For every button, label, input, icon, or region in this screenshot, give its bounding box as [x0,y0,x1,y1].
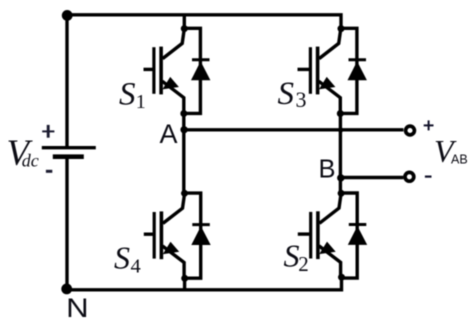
terminal minus [405,172,414,181]
svg-text:4: 4 [131,255,141,277]
junction A-line crossing [338,127,343,132]
IGBT S4 [144,193,185,278]
svg-text:S: S [278,76,295,112]
wire left leg top tap [183,15,186,29]
battery Vdc negative plate [53,154,84,159]
junction node N corner [61,284,72,295]
svg-text:A: A [160,119,178,149]
svg-text:2: 2 [298,252,309,276]
junction S1 collector [181,25,188,32]
junction S2 emitter [338,274,345,281]
diode D3 [341,28,367,113]
junction S4 emitter [181,275,188,282]
junction S3 emitter [337,110,344,117]
wire left leg bottom [183,278,186,290]
IGBT S3 [298,29,341,114]
svg-text:1: 1 [136,91,146,113]
svg-text:AB: AB [451,153,468,167]
wire left bus lower [65,158,68,289]
svg-text:3: 3 [296,87,307,112]
wire right leg mid (through crossing and node B) [339,114,342,194]
node B [337,174,344,181]
output minus sign [425,176,432,178]
junction S4 collector [181,190,188,197]
junction top-left corner [62,10,73,21]
junction S2 collector [338,190,345,197]
wire left bus upper [65,15,68,147]
svg-text:dc: dc [22,150,39,170]
wire left leg mid (through node A) [182,114,185,194]
battery plus sign [42,125,54,138]
node A [180,126,187,133]
wire bottom rail [67,277,342,290]
wire node B to minus terminal [341,176,404,179]
junction S3 collector [338,25,345,32]
svg-text:S: S [284,238,300,274]
battery minus sign [46,170,52,173]
svg-text:B: B [319,156,336,184]
diode D1 [184,28,210,113]
IGBT S2 [298,193,341,278]
junction S1 emitter [180,110,187,117]
svg-text:S: S [114,239,130,275]
terminal plus [406,126,415,135]
battery Vdc positive plate [42,146,96,149]
output plus sign [424,120,434,130]
svg-text:N: N [66,293,89,323]
IGBT S1 [144,29,185,114]
wire top rail [67,15,341,29]
diode D2 [341,193,367,278]
wire node A to plus terminal [184,128,403,131]
diode D4 [184,193,210,278]
svg-text:S: S [119,77,136,113]
